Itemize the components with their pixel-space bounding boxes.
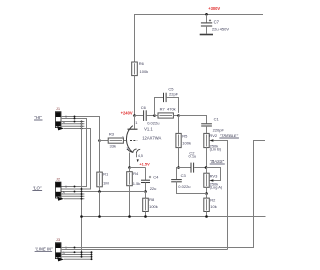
wire R1 to bus (99, 192, 101, 217)
wire C6 to node B (147, 115, 158, 117)
svg-text:"LO": "LO" (33, 185, 42, 190)
svg-text:"HI": "HI" (34, 115, 42, 120)
wire node B to R7 (155, 115, 159, 117)
wire R5 bottom (178, 148, 180, 168)
wire J3 pin4 (61, 254, 92, 256)
svg-text:R8: R8 (149, 197, 155, 202)
svg-text:R7: R7 (160, 106, 166, 111)
wire tone node to C1 (179, 116, 207, 124)
svg-text:470k: 470k (167, 106, 176, 111)
svg-text:0.022u: 0.022u (178, 184, 190, 189)
wire C2 to bass node (194, 167, 206, 169)
connector J2 (55, 177, 64, 201)
svg-text:R2: R2 (210, 197, 216, 202)
node tone top junction (177, 114, 180, 117)
svg-text:100k: 100k (182, 140, 191, 145)
wire anode to C6 (135, 115, 144, 117)
connector J1 (55, 106, 64, 130)
svg-text:C3: C3 (181, 173, 187, 178)
svg-text:1M: 1M (103, 180, 109, 185)
svg-text:12AX7WA: 12AX7WA (142, 136, 161, 141)
node grid junction (98, 139, 101, 142)
node B junction (153, 114, 156, 117)
svg-text:R4: R4 (133, 171, 139, 176)
wire J1 pin5 (61, 125, 84, 127)
wire cathode node to C4 (130, 167, 146, 169)
svg-text:+300V: +300V (208, 6, 220, 11)
wire R6 to anode node (134, 76, 136, 116)
wire R7 to tone node (173, 115, 178, 117)
capacitor C2 (189, 150, 197, 172)
svg-text:33k: 33k (110, 144, 116, 149)
resistor R3 (100, 132, 124, 149)
svg-text:RV2: RV2 (209, 133, 217, 138)
wire +300V rail (135, 15, 264, 63)
node C4/R8 junction (144, 190, 147, 193)
wire J3 pin1 output riser (61, 141, 265, 248)
svg-text:R5: R5 (182, 133, 188, 138)
svg-text:C6: C6 (141, 105, 147, 110)
tube V1.1 plate bar (128, 128, 138, 130)
wire tone node to R5 (178, 116, 180, 134)
wire J2 pin6 (64, 198, 85, 200)
ground (200, 34, 213, 36)
resistor R1 (97, 141, 109, 192)
tube V1.1 cathode pin 3 (127, 149, 133, 153)
wire J1 pin2 to J2 pin1 (61, 119, 87, 187)
wire J3 pin tie (91, 252, 93, 259)
node R1 bottom junction (98, 190, 101, 193)
svg-text:C1: C1 (214, 117, 220, 122)
capacitor C5 (164, 87, 179, 103)
svg-text:"TREBLE": "TREBLE" (220, 133, 239, 138)
capacitor C7 (201, 19, 229, 31)
svg-text:4,5: 4,5 (138, 154, 143, 158)
wire J1 pin3 (61, 121, 84, 123)
svg-text:1.5k: 1.5k (133, 181, 141, 186)
heater net marker (137, 159, 139, 162)
wire ground bus (82, 216, 266, 218)
svg-text:C4: C4 (153, 175, 159, 180)
node +300V junction (205, 13, 208, 16)
wire J3 pin2 from RV2 wiper (61, 249, 228, 251)
wire C5 loop left (155, 98, 164, 116)
wire J1 pin6 to J2 pin2 (61, 129, 91, 190)
svg-text:R3: R3 (109, 132, 115, 137)
svg-text:100k: 100k (149, 204, 158, 209)
wire ground return J2 pin3 to C4 (61, 191, 146, 193)
wire grid pin 2 (123, 140, 126, 142)
svg-text:0.022u: 0.022u (147, 120, 159, 125)
wire bass wiper loop (206, 168, 221, 181)
potentiometer RV3 (204, 168, 223, 190)
wire cathode lead (129, 153, 131, 168)
tube V1.1 heater pins 4,5 (133, 149, 137, 153)
svg-text:+1.5V: +1.5V (139, 162, 150, 167)
svg-text:(Log A): (Log A) (210, 185, 223, 190)
svg-text:22u: 22u (150, 186, 157, 191)
resistor R2 (204, 194, 217, 217)
svg-text:22u 450V: 22u 450V (212, 26, 229, 31)
svg-text:100k: 100k (140, 69, 149, 74)
resistor R4 (127, 168, 141, 217)
svg-text:RV3: RV3 (210, 173, 218, 178)
wire J2 pin4 (61, 193, 84, 195)
node bus junctions (80, 215, 83, 218)
wire RV3 bottom (206, 187, 208, 193)
tube V1.1 grid dashes (130, 140, 137, 142)
wire J3 pin6 (64, 258, 92, 260)
svg-text:V1.1: V1.1 (144, 127, 153, 132)
svg-text:+240V: +240V (121, 111, 133, 116)
wire RV2 bottom (206, 148, 208, 168)
svg-text:C7: C7 (214, 19, 220, 24)
node J1 pin junctions (74, 121, 76, 123)
wire tone mid to C2 (179, 167, 191, 169)
connector J3 (55, 237, 64, 261)
node J2 pin junctions (74, 186, 76, 188)
node tone mid junction (177, 166, 180, 169)
wire J1 pin4 (61, 123, 84, 125)
svg-text:"BASS": "BASS" (210, 159, 225, 164)
node J3 pin junctions (74, 247, 76, 249)
capacitor C4 (141, 168, 159, 192)
wire ground drop J1 to J3 (81, 122, 83, 257)
wire C7 top lead (206, 15, 208, 23)
resistor R5 (176, 133, 191, 147)
svg-text:"LINE IN": "LINE IN" (35, 247, 53, 252)
potentiometer RV2 (204, 133, 239, 152)
wire C5 loop right (167, 98, 179, 113)
node RV3/R2/C3 junction (205, 192, 208, 195)
capacitor C6 (141, 105, 160, 125)
node anode junction (133, 114, 136, 117)
node bass top junction (205, 166, 208, 169)
wire J1 pin1 to grid node (61, 117, 100, 141)
svg-text:(Lin B): (Lin B) (210, 147, 222, 152)
resistor R8 (143, 192, 158, 217)
node cathode junction (128, 166, 131, 169)
capacitor C1 (201, 117, 224, 133)
svg-text:10k: 10k (210, 204, 216, 209)
wire J3 pin3 (61, 251, 92, 253)
wire J3 pin5 (61, 256, 92, 258)
wire C1 to RV2 (206, 126, 208, 133)
svg-text:R1: R1 (103, 172, 109, 177)
svg-text:R6: R6 (139, 61, 145, 66)
wire RV2 wiper to J3 pin2 riser (213, 141, 227, 250)
resistor R6 (132, 61, 148, 76)
wire C7 bottom lead (206, 26, 208, 34)
tube V1.1 plate lead pin 1 (134, 116, 136, 129)
wire J2 pin5 (61, 195, 84, 197)
capacitor C3 (171, 168, 206, 194)
svg-text:22pF: 22pF (169, 91, 179, 96)
resistor R7 (158, 106, 176, 118)
tube V1.1 envelope arc (126, 126, 132, 153)
svg-text:0.1u: 0.1u (189, 154, 197, 159)
